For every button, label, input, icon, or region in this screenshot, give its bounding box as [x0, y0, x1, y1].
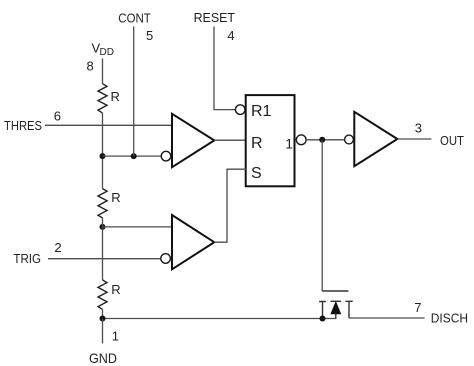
- svg-text:S: S: [251, 165, 262, 182]
- svg-text:CONT: CONT: [118, 11, 151, 26]
- svg-text:R: R: [111, 89, 120, 104]
- svg-text:RESET: RESET: [194, 10, 235, 25]
- svg-text:8: 8: [87, 58, 94, 73]
- transistor Q1 gate plate: [322, 290, 348, 292]
- wire: top resistor to 2/3 VDD node and middle resistor: [102, 113, 104, 189]
- wire: GND junction to GND pin: [102, 319, 104, 344]
- wire: comparator A output to flip-flop R input: [214, 139, 246, 141]
- svg-text:3: 3: [415, 121, 422, 136]
- resistor R (bottom): [98, 280, 107, 309]
- svg-text:DISCH: DISCH: [431, 311, 468, 326]
- flip-flop U1 box: [246, 95, 295, 186]
- wire: comparator B output to flip-flop S input: [214, 169, 246, 242]
- bubble: output buffer inverting input: [345, 135, 354, 144]
- svg-text:R: R: [111, 190, 120, 205]
- svg-text:DD: DD: [100, 47, 114, 58]
- wire: GND rail: [103, 318, 337, 320]
- transistor Q1 body contact with arrow: [331, 301, 342, 318]
- node: GND rail junction: [100, 316, 106, 322]
- svg-text:2: 2: [54, 240, 61, 255]
- svg-text:6: 6: [54, 109, 61, 124]
- wire: TRIG to comparator B inverting input: [48, 258, 161, 260]
- comparator B (trigger comparator): [172, 215, 214, 269]
- wire: Q1 drain to DISCH pin: [349, 317, 425, 319]
- resistor R (top, VDD to threshold node): [98, 84, 107, 113]
- wire: 1/3 VDD node to comparator B non-inverting input: [103, 226, 173, 228]
- wire: THRES to comparator A non-inverting input: [45, 124, 173, 126]
- wire: bottom resistor to GND rail: [102, 309, 104, 318]
- node: 1/3 VDD divider junction: [100, 224, 106, 230]
- bubble: flip-flop inverted output: [296, 135, 306, 145]
- wire: divider node to comparator A inverting input: [103, 155, 162, 157]
- svg-text:R1: R1: [251, 103, 272, 120]
- node: Q1 source to GND junction: [320, 316, 326, 322]
- node: output-discharge junction: [319, 137, 325, 143]
- wire: middle resistor to bottom resistor: [102, 218, 104, 280]
- svg-text:OUT: OUT: [440, 133, 464, 148]
- svg-text:7: 7: [414, 300, 421, 315]
- svg-text:THRES: THRES: [4, 118, 42, 133]
- wire: RESET pin down to flip-flop R1 bubble: [214, 27, 235, 110]
- output buffer U2: [354, 112, 397, 166]
- svg-text:R: R: [251, 135, 263, 152]
- wire: CONT pin to divider node: [133, 27, 135, 157]
- net VDD label: [92, 40, 114, 58]
- svg-text:TRIG: TRIG: [13, 251, 41, 266]
- resistor R (middle): [98, 189, 107, 218]
- wire: VDD to top resistor: [102, 59, 104, 84]
- node: 2/3 VDD divider junction: [100, 153, 106, 159]
- svg-text:4: 4: [227, 28, 234, 43]
- bubble: comparator A inverting input: [161, 151, 171, 161]
- svg-text:1: 1: [285, 136, 293, 152]
- node: CONT junction: [131, 153, 137, 159]
- wire: buffer output to OUT pin: [397, 138, 431, 140]
- svg-text:R: R: [111, 282, 120, 297]
- wire: flip-flop output to buffer input: [306, 139, 345, 141]
- transistor Q1 drain contact: [345, 301, 352, 318]
- bubble: flip-flop R1 input: [235, 105, 245, 115]
- svg-text:1: 1: [112, 329, 119, 344]
- svg-text:GND: GND: [89, 350, 117, 366]
- comparator A (threshold comparator): [172, 114, 214, 167]
- transistor Q1 source contact: [319, 302, 326, 319]
- svg-text:5: 5: [146, 28, 153, 43]
- bubble: comparator B inverting input: [161, 254, 171, 264]
- wire: discharge gate drive (junction down to Q1 gate): [321, 140, 323, 291]
